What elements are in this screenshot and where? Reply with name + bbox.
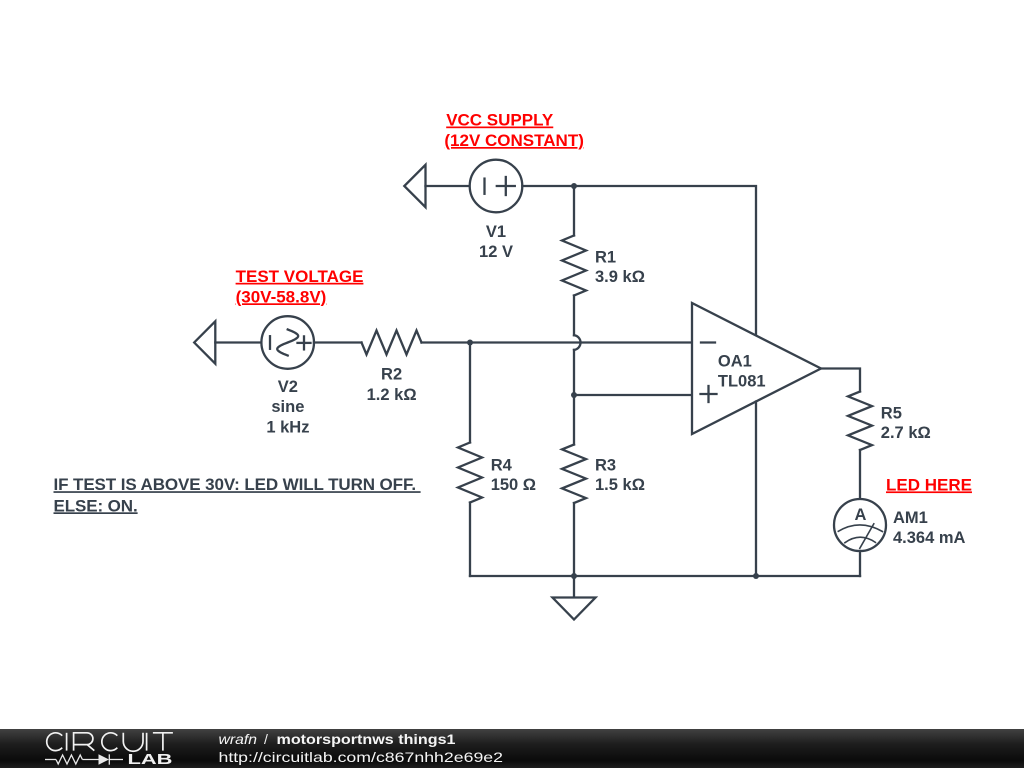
node op-amp V- junction [753,573,759,579]
svg-text:V1: V1 [486,223,506,241]
wire R4 to bottom rail [469,503,471,577]
svg-text:TL081: TL081 [718,372,766,390]
flag terminal of V1 [404,165,425,207]
svg-text:AM1: AM1 [893,509,928,527]
svg-text:OA1: OA1 [718,353,752,371]
svg-text:1.5 kΩ: 1.5 kΩ [595,476,645,494]
svg-text:(12V CONSTANT): (12V CONSTANT) [444,131,583,150]
wire bottom rail [470,575,860,577]
op-amp OA1 [692,303,821,434]
wire op-amp bottom supply [755,402,757,577]
node plus junction [571,392,577,398]
resistor R1 [562,236,586,296]
wire node to R4 [469,343,471,443]
label R2 value [367,366,417,404]
wire R1 to hop [573,296,575,336]
resistor R3 [562,445,586,504]
flag terminal of V2 [194,321,215,363]
svg-text:12 V: 12 V [479,243,513,261]
resistor R4 [458,443,482,503]
wire node to R3 [573,395,575,445]
svg-text:IF TEST IS ABOVE 30V: LED WILL: IF TEST IS ABOVE 30V: LED WILL TURN OFF. [54,475,421,494]
wire R2 to op-amp minus input [422,341,693,343]
svg-text:TEST VOLTAGE: TEST VOLTAGE [236,267,364,286]
svg-text:150 Ω: 150 Ω [491,476,536,494]
wire flag to V1 [426,185,470,187]
wire R3 to bottom rail [573,503,575,576]
wire hop over minus wire [574,335,581,350]
svg-text:R4: R4 [491,457,513,475]
svg-text:LAB: LAB [128,751,173,768]
resistor R2 [362,331,422,355]
svg-text:/: / [264,731,268,747]
logo CIRCUIT [47,733,173,751]
svg-text:A: A [854,506,866,524]
node VCC junction [571,183,577,189]
svg-text:2.7 kΩ: 2.7 kΩ [881,424,931,442]
wire V1 to corner [522,186,756,335]
svg-text:R2: R2 [381,366,402,384]
svg-text:VCC SUPPLY: VCC SUPPLY [446,111,554,130]
wire V2 to R2 [314,341,362,343]
voltage source V2 sine [261,316,314,369]
logo resistor-diode symbol [45,754,123,764]
wire ammeter to bottom rail [859,551,861,576]
svg-text:R1: R1 [595,248,616,266]
svg-text:R5: R5 [881,404,902,422]
svg-text:1 kHz: 1 kHz [266,419,309,437]
label V1 value [479,223,513,261]
wire plus input [574,394,692,396]
svg-text:4.364 mA: 4.364 mA [893,529,966,547]
label V2 value [266,378,309,437]
voltage source V1 [470,160,523,213]
node R2 junction [467,340,473,346]
svg-text:motorsportnws things1: motorsportnws things1 [277,731,456,747]
ammeter AM1 [834,499,886,551]
svg-text:wrafn: wrafn [219,731,258,747]
svg-text:(30V-58.8V): (30V-58.8V) [236,287,327,306]
svg-text:3.9 kΩ: 3.9 kΩ [595,268,645,286]
wire ground stub [573,576,575,598]
svg-text:R3: R3 [595,457,616,475]
svg-text:sine: sine [271,398,304,416]
svg-text:V2: V2 [278,378,298,396]
svg-text:ELSE: ON.: ELSE: ON. [54,496,138,515]
resistor R5 [848,392,872,451]
wire node to R1 [573,186,575,236]
wire R5 to ammeter [859,450,861,499]
node ground junction [571,573,577,579]
svg-text:http://circuitlab.com/c867nhh2: http://circuitlab.com/c867nhh2e69e2 [219,749,504,765]
ground [553,598,596,620]
svg-text:LED HERE: LED HERE [886,475,972,494]
svg-text:1.2 kΩ: 1.2 kΩ [367,386,417,404]
wire flag to V2 [215,341,261,343]
wire hop to node [573,350,575,395]
wire op-amp output [821,369,860,392]
